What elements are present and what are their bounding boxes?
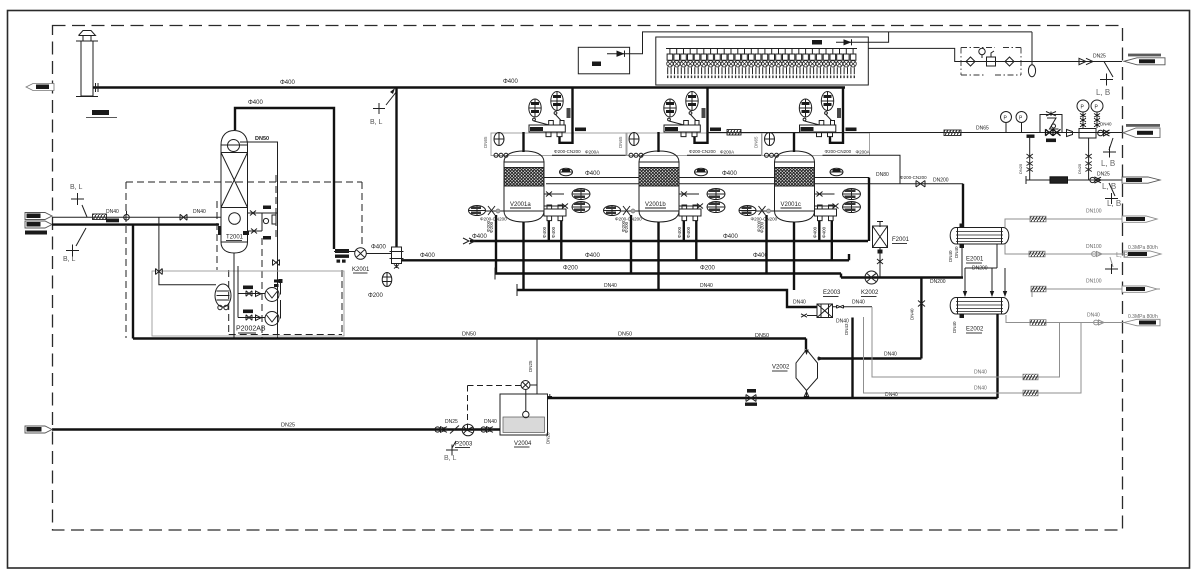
svg-text:DN80: DN80 (876, 172, 889, 178)
svg-text:Φ400: Φ400 (371, 245, 386, 251)
svg-text:DN40: DN40 (793, 300, 806, 306)
compressor K2002 (865, 271, 878, 284)
svg-text:DN25: DN25 (1077, 163, 1082, 174)
svg-text:L, B: L, B (1107, 199, 1121, 208)
PI on tank (521, 381, 537, 390)
svg-text:DN25: DN25 (445, 419, 458, 425)
exchanger E2003 (817, 304, 833, 318)
label phi400 dark (106, 219, 119, 223)
wire: DN25 drop to tank (528, 339, 537, 395)
wire: DN50 header turn down to V2002 (805, 339, 807, 350)
wire: regen header DN80 y177.5 (544, 177, 869, 179)
svg-text:Φ400: Φ400 (585, 253, 600, 259)
label V2002 (772, 365, 790, 372)
wire: flare header phi400 (93, 83, 845, 92)
svg-text:Φ400: Φ400 (722, 171, 737, 177)
wire: E2001 bottom to K2002 line (961, 244, 963, 278)
svg-text:DN40: DN40 (106, 209, 119, 215)
bottom manifold V2001b (679, 205, 701, 221)
svg-text:B, L: B, L (444, 455, 457, 462)
label 8000Nm3/h (25, 231, 47, 235)
L,B on blowdown (1105, 183, 1121, 208)
adsorber vessel V2001b (626, 133, 762, 222)
svg-text:DN40: DN40 (910, 308, 915, 320)
wire: blowdown line y180 (1026, 176, 1122, 184)
svg-text:DN100: DN100 (1086, 209, 1102, 215)
svg-text:DN40: DN40 (952, 321, 957, 333)
level instrument V2001a left (469, 206, 486, 216)
silencer dark (1050, 177, 1068, 183)
label E2001 (966, 257, 984, 264)
wire: drop from flare header to K2001 tee (395, 88, 397, 248)
discharge valves (481, 427, 493, 433)
wire: pump suction tap (237, 266, 239, 318)
svg-text:DN100: DN100 (1086, 279, 1102, 285)
twin gauges PI (1077, 100, 1103, 128)
svg-text:Φ200-CN200: Φ200-CN200 (900, 175, 927, 180)
valve + capsule below tee (382, 264, 399, 287)
off-page arrow blowdown (1122, 177, 1160, 183)
svg-text:DN40: DN40 (604, 283, 617, 289)
label V2001a (510, 202, 531, 208)
wire: phi200 regen line (687, 154, 762, 156)
svg-text:P2003: P2003 (455, 442, 473, 448)
wire: main process header y260 (K2001 discharge) (402, 259, 850, 261)
heat exchanger E2001 (950, 228, 1009, 245)
off-page arrow water in (25, 426, 52, 433)
wire: burner fuel from right side (868, 48, 961, 61)
svg-text:B, L: B, L (70, 184, 83, 191)
wire: DN50 header y338.5 (133, 337, 806, 339)
vent stack (76, 31, 98, 97)
wire: K2002 suction/discharge y277.5 (841, 276, 963, 278)
svg-text:DN40: DN40 (954, 246, 959, 258)
instruments V2001b right (695, 168, 708, 176)
svg-text:DN50: DN50 (755, 333, 769, 339)
svg-text:Φ400: Φ400 (686, 226, 691, 238)
valve on dashed riser below T2001 (273, 260, 280, 288)
wire: E2002 outlet drop to tank line (996, 314, 998, 398)
pilot gas regulator box (961, 48, 1021, 76)
wire: feed thick line (52, 223, 219, 225)
wire: K2001 inlet (334, 251, 355, 253)
svg-text:DN40: DN40 (884, 352, 897, 358)
silencer hose 2 (944, 130, 961, 136)
label E2003 (823, 290, 841, 297)
wire: cooling water A return y254 (1005, 244, 1161, 254)
vent stack label 放空 (86, 110, 117, 118)
svg-text:Φ400: Φ400 (420, 253, 435, 259)
valve pair (1090, 177, 1101, 183)
off-page arrow regen gas in (1124, 54, 1165, 65)
wire: drops to headers V2001b (630, 215, 632, 274)
heat exchanger E2002 (950, 298, 1009, 315)
wire: DN50 from T2001 top to bottom header (240, 142, 278, 339)
bottom manifold V2001c (815, 205, 837, 221)
label K2001 (352, 267, 370, 273)
svg-text:DN65: DN65 (754, 136, 759, 148)
wire: pilot line to arrow (1021, 61, 1122, 63)
svg-text:B, L: B, L (370, 119, 383, 126)
E2003 valves (833, 305, 873, 308)
label DN65 (710, 128, 721, 132)
bypass line from feed to pump area (156, 217, 217, 284)
svg-text:Φ400: Φ400 (248, 100, 263, 106)
pump P2003 (462, 424, 474, 436)
svg-text:DN40: DN40 (974, 370, 987, 376)
separator V2002 (796, 350, 818, 399)
valve on y398 (745, 389, 757, 406)
suction valves P2003 (435, 427, 447, 433)
svg-text:Φ200-CN200: Φ200-CN200 (689, 149, 716, 154)
burner manifold line (666, 48, 857, 50)
svg-text:DN40: DN40 (974, 386, 987, 392)
svg-text:DN65: DN65 (976, 126, 989, 132)
igniter box V2003 (578, 47, 629, 74)
label P2003 (455, 442, 473, 448)
svg-text:DN200: DN200 (933, 178, 949, 184)
wire: regen to E2001 (962, 184, 964, 228)
wire: feed drop into V2001a (560, 88, 573, 143)
svg-text:DN40: DN40 (193, 209, 206, 215)
silencer on feed line (93, 214, 107, 220)
svg-text:V2002: V2002 (772, 365, 790, 371)
bottom manifold V2001a (544, 205, 566, 221)
instrument PSV ovals V2001a (529, 99, 549, 125)
label E2002 (966, 327, 984, 334)
label V2001b (645, 202, 666, 208)
valve pair after meter (1098, 130, 1110, 136)
wire: top line drop to regulator line (1031, 32, 1033, 65)
E2001 nozzles (948, 224, 964, 263)
wire: T2001 overhead phi400 (235, 108, 334, 249)
wire: manifold to vessel top (522, 132, 524, 152)
burner tips squares row (667, 49, 857, 79)
label DN40 (1027, 135, 1035, 138)
svg-text:K2002: K2002 (861, 290, 879, 296)
svg-text:DN25: DN25 (1018, 163, 1023, 174)
B,L lower (feed) (63, 228, 86, 263)
pump P2002A (238, 286, 279, 302)
wire: header3 phi200 y272 (495, 268, 841, 280)
wire: F2001 to K2002 line (877, 248, 883, 278)
wire: tank outlet to E2002 y398 (548, 397, 998, 399)
svg-text:E2002: E2002 (966, 327, 984, 333)
instrument PSV ovals V2001c (799, 99, 819, 125)
svg-text:Φ200: Φ200 (757, 220, 762, 232)
top valve manifold V2001a (529, 121, 565, 137)
svg-text:B, L: B, L (63, 256, 76, 263)
label DN65 (575, 128, 586, 132)
slash valve (450, 426, 459, 434)
svg-text:Φ200: Φ200 (700, 266, 715, 272)
wire: cooling water B supply y289 (1032, 289, 1160, 297)
wire: DN80 down to header1 (868, 178, 870, 242)
svg-text:V2001a: V2001a (510, 202, 531, 208)
wire: thick drop to DN50 header (132, 225, 134, 339)
pressure gauges PI (1001, 112, 1012, 133)
off-page arrow cwA (1122, 216, 1157, 222)
dashed instrument box around T2001/pumps (126, 175, 362, 338)
svg-text:0.3MPa 80t/h: 0.3MPa 80t/h (1128, 245, 1158, 251)
svg-text:L, B: L, B (1096, 88, 1110, 97)
svg-text:Φ200: Φ200 (486, 220, 491, 232)
wire: header4 y290 to E2003 (517, 284, 817, 307)
svg-text:Φ200-CN200: Φ200-CN200 (615, 217, 642, 222)
wire: regen header y183.75 (546, 183, 963, 185)
filter F2001 (873, 226, 888, 248)
svg-text:DN65: DN65 (483, 136, 488, 148)
instruments V2001c right (830, 168, 843, 176)
wire: E2003 cooling riser y393 (864, 317, 1082, 393)
label DN40 (1046, 139, 1056, 143)
label T2001 (226, 235, 244, 241)
svg-text:DN40: DN40 (700, 283, 713, 289)
svg-text:Φ400: Φ400 (677, 226, 682, 238)
svg-text:F2001: F2001 (892, 237, 910, 243)
svg-text:Φ200-CN200: Φ200-CN200 (751, 217, 778, 222)
valve DN40 mid feed (180, 214, 187, 220)
svg-text:Φ400: Φ400 (723, 234, 738, 240)
adsorber vessel V2001a (491, 133, 627, 222)
globe valve on feed (124, 211, 130, 220)
wire: from igniter box to top line (607, 32, 1032, 57)
svg-text:DN50: DN50 (255, 136, 269, 142)
capsule seal pot (1028, 65, 1035, 77)
L,B under PCV (1101, 138, 1116, 168)
valve on regen line (916, 181, 925, 188)
wire: phi200 regen line (552, 154, 627, 156)
wire: V2002 riser to K2002 (910, 278, 926, 359)
svg-text:DN25: DN25 (1093, 54, 1106, 60)
svg-text:V2001b: V2001b (645, 202, 666, 208)
instruments V2001a right (560, 168, 573, 176)
svg-text:Φ200: Φ200 (368, 293, 383, 299)
svg-text:Φ400: Φ400 (551, 226, 556, 238)
svg-text:V2001c: V2001c (781, 202, 801, 208)
tank V2004 (500, 390, 552, 436)
wire: feed drop into V2001b (695, 88, 708, 143)
svg-text:Φ200-CN200: Φ200-CN200 (825, 149, 852, 154)
L,B mark (1105, 252, 1129, 274)
label V2004 (514, 441, 532, 447)
T2001 right nozzle lines (243, 206, 278, 240)
svg-text:DN40: DN40 (852, 300, 865, 306)
feed off-page arrow 2 (25, 221, 52, 228)
wire: E2001 to E2002 (963, 244, 1007, 297)
svg-text:DN25: DN25 (1097, 172, 1110, 178)
tower T2001 (221, 131, 248, 254)
svg-text:DN25: DN25 (528, 360, 533, 372)
wire: drops to headers V2001c (765, 215, 767, 274)
discharge spool/tee (390, 247, 404, 264)
svg-text:Φ200: Φ200 (621, 220, 626, 232)
wire: E2003 cooling riser y377 (872, 307, 1060, 377)
svg-text:DN25: DN25 (281, 423, 295, 429)
label V2001c (781, 202, 802, 208)
compressor K2001 (355, 248, 367, 260)
svg-text:DN43: DN43 (844, 323, 849, 335)
wire: raw water line y429.5 (52, 428, 500, 430)
drain legs from PCV assembly (1018, 136, 1033, 180)
top valve manifold V2001b (664, 121, 700, 137)
L,B below pilot arrow (1096, 62, 1113, 98)
silencer hose 1 (727, 130, 741, 136)
label DN65 (846, 128, 857, 132)
wire: header1 phi400 y241 (463, 238, 868, 244)
wire: V2002 overhead to K2002 riser (818, 356, 922, 360)
svg-text:E2003: E2003 (823, 290, 841, 296)
svg-text:L, B: L, B (1116, 252, 1129, 259)
break symbol + B,L at x396 (373, 88, 397, 114)
top valve manifold V2001c (800, 121, 836, 137)
svg-text:Φ400: Φ400 (813, 226, 818, 238)
nozzle tick into T2001 (218, 226, 222, 235)
instrument PSV ovals V2001b (664, 99, 684, 125)
level instrument V2001c left (739, 206, 756, 216)
flow meter block (1079, 129, 1096, 139)
svg-text:DN40: DN40 (1087, 313, 1100, 319)
wire: K2001 discharge (367, 253, 393, 255)
svg-text:Φ200-CN200: Φ200-CN200 (554, 149, 581, 154)
F2001 top stub (877, 222, 883, 228)
wire: T2001 bottom outlet down (233, 253, 235, 339)
svg-text:DN40: DN40 (1100, 122, 1112, 127)
feed off-page arrow 1 (25, 213, 52, 220)
PCV control valve with bypass (1040, 112, 1062, 136)
wire: cooling water B return y322.5 (1006, 315, 1160, 323)
burner check valve line inside box (812, 32, 889, 46)
svg-text:Φ400: Φ400 (542, 226, 547, 238)
svg-text:DN200: DN200 (930, 279, 946, 285)
off-page arrow cwB in (1124, 319, 1160, 326)
svg-text:P2002AB: P2002AB (236, 326, 266, 333)
wire: drops to headers V2001a (495, 215, 497, 274)
off-page arrow vent (left) (26, 84, 54, 91)
dashed instrument line to tank (468, 386, 522, 430)
pump discharge manifold (279, 279, 283, 319)
wire: phi200 regen line (823, 154, 870, 156)
wire: feed thin line DN40 (52, 216, 221, 218)
label F2001 (892, 237, 910, 244)
wire: regen line c to DN200 line (870, 155, 901, 183)
svg-text:Φ200A: Φ200A (856, 150, 870, 155)
svg-text:Φ200: Φ200 (563, 266, 578, 272)
silencer blocks before K2001 (335, 249, 349, 263)
svg-text:DN40: DN40 (948, 250, 953, 262)
adsorber vessel V2001c (762, 133, 870, 222)
svg-text:DN50: DN50 (462, 332, 476, 338)
level gauge oval (215, 284, 231, 310)
wire: manifold to vessel top (793, 132, 795, 152)
B,L at P2003 (444, 441, 458, 462)
svg-text:DN40: DN40 (484, 419, 497, 425)
svg-text:Φ200-CN200: Φ200-CN200 (480, 217, 507, 222)
wire: manifold to vessel top (657, 132, 659, 152)
wire: cooling water A supply y219 (1005, 219, 1157, 228)
svg-text:Φ400: Φ400 (753, 253, 768, 259)
svg-text:L, B: L, B (1102, 182, 1116, 191)
svg-text:Φ400: Φ400 (585, 171, 600, 177)
wire: feed drop into V2001c (830, 88, 843, 143)
wire: E2003 bottom drop (851, 318, 853, 399)
wire: header2 end to K2002 line (841, 254, 849, 278)
label P2002AB (236, 326, 266, 334)
gray utility box around pumps (152, 271, 344, 336)
E2002 bottom nozzles (952, 314, 964, 333)
svg-text:Φ400: Φ400 (472, 234, 487, 240)
svg-text:Φ400: Φ400 (822, 226, 827, 238)
svg-text:T2001: T2001 (226, 235, 244, 241)
svg-text:DN100: DN100 (1086, 244, 1102, 250)
reducer fitting (1067, 130, 1073, 137)
svg-text:L, B: L, B (1101, 159, 1115, 168)
B,L upper (feed) (70, 184, 87, 217)
pump P2002B (238, 310, 279, 326)
wire: PSA product line DN65 y132.5 (707, 132, 1122, 134)
svg-text:Φ400: Φ400 (280, 80, 295, 86)
svg-text:Φ400: Φ400 (503, 79, 518, 85)
svg-text:Φ200A: Φ200A (585, 150, 599, 155)
flare burner box (656, 37, 869, 85)
check valve + valve on pilot line (1079, 58, 1093, 64)
svg-text:DN65: DN65 (618, 136, 623, 148)
off-page arrow cwB (1122, 286, 1157, 292)
svg-text:Φ200A: Φ200A (720, 150, 734, 155)
svg-text:K2001: K2001 (352, 267, 370, 273)
svg-text:DN20: DN20 (546, 432, 551, 444)
off-page arrow recycle H2 (1123, 124, 1160, 138)
label K2002 (861, 290, 879, 297)
svg-text:V2004: V2004 (514, 441, 532, 447)
battery limit dashed boundary (53, 26, 1123, 531)
level instrument V2001b left (604, 206, 621, 216)
svg-text:E2001: E2001 (966, 257, 984, 263)
svg-text:DN50: DN50 (618, 332, 632, 338)
off-page arrow cwA return (1124, 251, 1161, 257)
